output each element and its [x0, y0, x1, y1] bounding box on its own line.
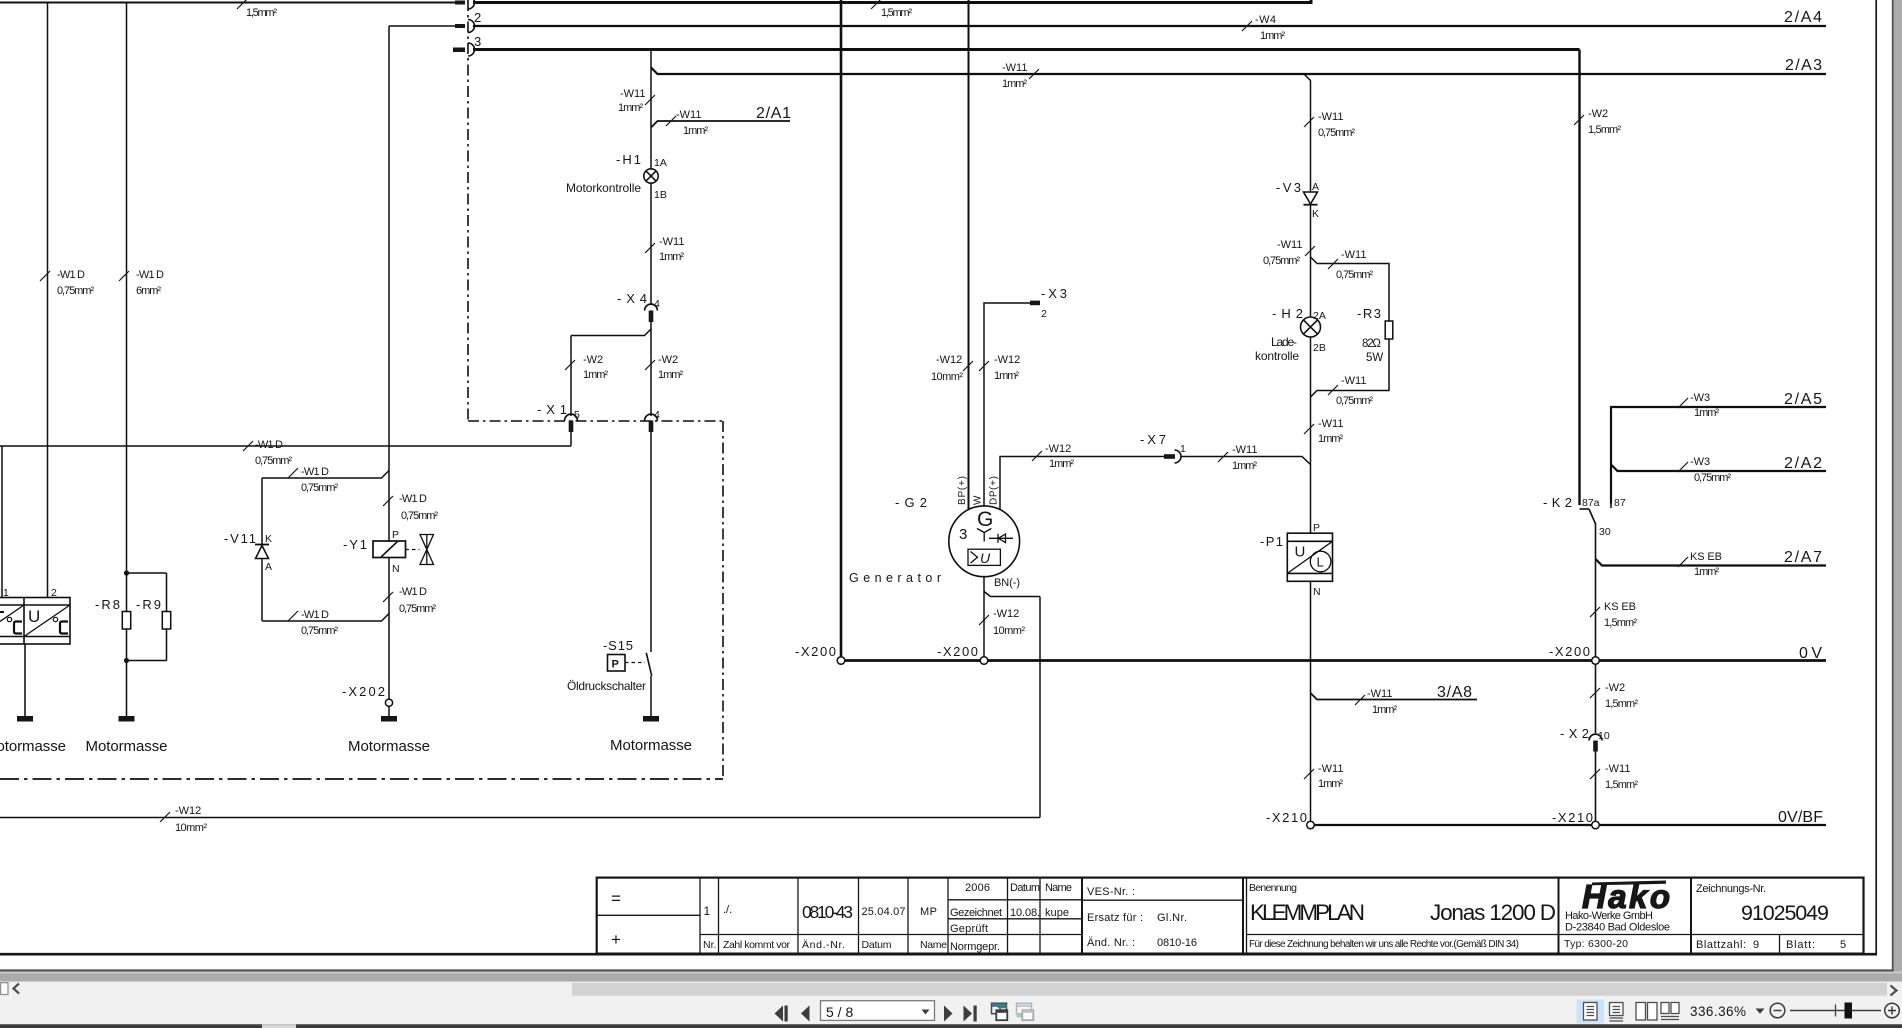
- svg-text:1mm²: 1mm²: [658, 369, 683, 381]
- svg-text:-W11: -W11: [1605, 763, 1630, 775]
- hscrollbar left arrow: [14, 984, 20, 994]
- svg-text:DP(+): DP(+): [989, 476, 1000, 505]
- svg-text:-W12: -W12: [936, 354, 962, 366]
- next view icon (disabled): [1017, 1003, 1034, 1020]
- wire V3 to parallel section: [1310, 205, 1312, 317]
- svg-text:10mm²: 10mm²: [931, 371, 963, 383]
- zoom in button: [1885, 1003, 1900, 1018]
- svg-text:Normgepr.: Normgepr.: [950, 941, 1000, 953]
- svg-text:0,75mm²: 0,75mm²: [1318, 127, 1355, 139]
- svg-text:W: W: [973, 495, 984, 505]
- svg-text:Name: Name: [920, 939, 947, 951]
- ground S15: [643, 716, 659, 722]
- svg-text:1mm²: 1mm²: [1232, 460, 1257, 472]
- svg-text:87a: 87a: [1582, 497, 1600, 509]
- svg-text:2006: 2006: [965, 882, 990, 894]
- svg-text:Ersatz für :: Ersatz für :: [1087, 912, 1143, 924]
- wire W1D horizontal y446: [0, 445, 571, 447]
- svg-text:Gezeichnet: Gezeichnet: [950, 907, 1002, 919]
- terminal X200 right: [1592, 657, 1600, 665]
- svg-text:L: L: [1317, 555, 1324, 570]
- zoom slider: [1790, 1005, 1881, 1017]
- wire bus 2/A5 with corner: [1611, 407, 1826, 504]
- svg-text:K: K: [1312, 208, 1319, 220]
- lamp H1: [644, 169, 658, 183]
- svg-text:U: U: [980, 550, 991, 566]
- svg-text:Motormasse: Motormasse: [86, 738, 168, 755]
- svg-text:1B: 1B: [654, 189, 667, 201]
- wire riser x47 to block terminal 2: [47, 3, 49, 598]
- svg-text:Jonas 1200 D: Jonas 1200 D: [1430, 900, 1556, 925]
- svg-text:-H1: -H1: [616, 152, 641, 167]
- svg-text:1mm²: 1mm²: [1260, 30, 1285, 42]
- svg-text:1mm²: 1mm²: [659, 251, 684, 263]
- svg-text:5: 5: [1840, 939, 1846, 951]
- svg-text:kupe: kupe: [1045, 907, 1069, 919]
- svg-text:2: 2: [474, 10, 481, 25]
- svg-text:K: K: [265, 533, 272, 545]
- wire thick riser x841 to X200: [840, 0, 843, 657]
- svg-text:Benennung: Benennung: [1249, 882, 1297, 894]
- wire parallel top rail to R3: [1311, 257, 1390, 321]
- svg-text:Für diese Zeichnung behalten w: Für diese Zeichnung behalten wir uns all…: [1249, 939, 1519, 950]
- svg-text:KLEMMPLAN: KLEMMPLAN: [1250, 900, 1365, 925]
- svg-text:2A: 2A: [1313, 310, 1326, 322]
- svg-text:-W2: -W2: [583, 354, 603, 366]
- svg-text:10: 10: [1598, 730, 1610, 742]
- view mode facing continuous: [1661, 1003, 1679, 1020]
- wire riser x389 from L2 to Y1: [388, 26, 390, 541]
- svg-text:-X200: -X200: [937, 644, 978, 659]
- svg-text:30: 30: [1599, 526, 1611, 538]
- svg-text:-W1 D: -W1 D: [136, 269, 164, 281]
- junction dot R8/R9 top: [124, 570, 129, 575]
- svg-text:1,5mm²: 1,5mm²: [881, 7, 912, 19]
- svg-text:0,75mm²: 0,75mm²: [301, 625, 338, 637]
- connector X3 pin bar: [1030, 301, 1040, 306]
- svg-text:2/A7: 2/A7: [1784, 549, 1822, 566]
- svg-text:87: 87: [1614, 497, 1626, 509]
- svg-text:-W11: -W11: [1341, 375, 1366, 387]
- svg-text:+: +: [611, 930, 621, 949]
- svg-text:0,75mm²: 0,75mm²: [57, 285, 94, 297]
- wire BN branch jog to x1040: [984, 592, 1040, 597]
- connector X4 socket arc: [645, 304, 658, 310]
- connector pin 1 (bar+socket): [455, 1, 465, 5]
- svg-text:0V: 0V: [1799, 645, 1822, 662]
- svg-text:-W2: -W2: [1605, 682, 1625, 694]
- svg-text:9: 9: [1753, 939, 1759, 951]
- svg-text:-W12: -W12: [175, 805, 201, 817]
- boundary dash-dot horizontal y421: [468, 420, 723, 422]
- svg-text:Motormasse: Motormasse: [0, 738, 66, 755]
- svg-text:A: A: [1312, 181, 1319, 193]
- wire riser x126 to R8: [126, 3, 128, 574]
- svg-text:1: 1: [1180, 443, 1186, 455]
- svg-text:1mm²: 1mm²: [1002, 78, 1027, 90]
- svg-text:1,5mm²: 1,5mm²: [1605, 779, 1638, 791]
- svg-text:5W: 5W: [1366, 352, 1383, 364]
- wire X1:5 tail to corner: [570, 432, 572, 446]
- svg-text:1: 1: [704, 904, 711, 918]
- wire Y1 N lead down to X202: [388, 558, 390, 700]
- svg-text:5: 5: [574, 409, 580, 421]
- svg-text:-V3: -V3: [1276, 180, 1301, 195]
- svg-text:-W11: -W11: [1277, 239, 1302, 251]
- svg-text:1mm²: 1mm²: [583, 369, 608, 381]
- svg-text:-W1 D: -W1 D: [255, 439, 283, 451]
- svg-text:Gl.Nr.: Gl.Nr.: [1157, 912, 1187, 924]
- junction dot R8/R9 bottom: [124, 658, 129, 663]
- svg-text:3: 3: [959, 526, 967, 543]
- wire V11 top branch y478: [262, 471, 389, 479]
- wire V3/H2 riser to P1: [1310, 465, 1312, 534]
- nav last page button: [964, 1006, 973, 1022]
- svg-text:-W2: -W2: [658, 354, 678, 366]
- svg-text:0,75mm²: 0,75mm²: [301, 482, 338, 494]
- svg-text:0810-16: 0810-16: [1157, 937, 1197, 949]
- svg-text:-W4: -W4: [1255, 14, 1276, 26]
- svg-text:BN(-): BN(-): [994, 577, 1020, 589]
- svg-text:-W1 D: -W1 D: [301, 609, 329, 621]
- svg-text:=: =: [611, 889, 621, 908]
- connector X1:4 pin bar: [649, 421, 654, 433]
- svg-text:1mm²: 1mm²: [618, 102, 643, 114]
- svg-text:1mm²: 1mm²: [1049, 458, 1074, 470]
- wire L2 left thin from Y1 riser corner: [389, 25, 456, 27]
- page number box: [821, 1001, 935, 1021]
- svg-text:-W3: -W3: [1690, 456, 1710, 468]
- svg-text:P: P: [612, 659, 619, 671]
- svg-text:Zahl kommt vor: Zahl kommt vor: [723, 939, 791, 951]
- wire bus 2/A3 with jog from H1 riser: [651, 68, 1826, 75]
- wire V3 riser: [1310, 81, 1312, 193]
- svg-text:Lade-: Lade-: [1271, 335, 1297, 349]
- svg-text:0,75mm²: 0,75mm²: [1336, 395, 1373, 407]
- sensor block U/C: [0, 598, 70, 645]
- view mode continuous: [1610, 1003, 1624, 1022]
- svg-text:-W2: -W2: [1588, 108, 1608, 120]
- svg-text:1mm²: 1mm²: [1372, 704, 1397, 716]
- wire P1 N lead down to X210: [1310, 582, 1312, 822]
- svg-text:5 / 8: 5 / 8: [826, 1004, 853, 1020]
- svg-text:MP: MP: [920, 906, 937, 918]
- wire block terminal 1 riser: [1, 446, 3, 598]
- svg-text:-R8: -R8: [95, 597, 120, 612]
- wire H2 lamp leads: [1310, 337, 1312, 465]
- wire DP(+) to X7: [1000, 457, 1165, 510]
- frame right line: [1875, 0, 1877, 954]
- svg-text:KS EB: KS EB: [1690, 551, 1722, 563]
- svg-text:3/A8: 3/A8: [1437, 684, 1472, 701]
- page right edge shadow: [1892, 0, 1894, 972]
- wire X4 down with branch jog: [650, 322, 652, 416]
- connector pin 2 (bar+socket): [455, 24, 465, 28]
- svg-text:P: P: [392, 529, 399, 541]
- wire parallel bottom rail from R3: [1311, 339, 1390, 397]
- svg-text:2/A3: 2/A3: [1785, 57, 1822, 74]
- svg-text:-S15: -S15: [603, 638, 633, 653]
- wire X3 drop W wire: [984, 303, 1031, 506]
- svg-text:Nr.: Nr.: [703, 939, 716, 951]
- svg-text:A: A: [265, 561, 272, 573]
- wire bus 0V/BF X210: [1315, 824, 1827, 826]
- svg-text:82Ω: 82Ω: [1362, 338, 1381, 350]
- connector X1:4 socket arc: [645, 414, 658, 420]
- generator G2: [949, 506, 1020, 577]
- wire bus 2/A4: [473, 25, 1826, 27]
- wire V11 cathode riser: [261, 559, 263, 622]
- SCHEMLABELS: [40, 0, 1731, 834]
- svg-text:U: U: [28, 607, 40, 626]
- resistor R9: [127, 573, 171, 661]
- svg-text:-W1 D: -W1 D: [399, 493, 427, 505]
- pressure switch S15: [608, 653, 652, 676]
- connector X2 socket arc: [1589, 734, 1602, 740]
- svg-text:U: U: [1295, 544, 1306, 561]
- boundary dash-dot vertical x723: [722, 421, 724, 779]
- svg-text:10.08.: 10.08.: [1010, 907, 1040, 919]
- svg-text:1,5mm²: 1,5mm²: [1588, 124, 1621, 136]
- wire H1 to X4: [650, 183, 652, 304]
- connector pin 3 (bar+socket): [453, 48, 465, 53]
- svg-text:Änd. Nr. :: Änd. Nr. :: [1087, 937, 1135, 949]
- hscrollbar thumb: [572, 983, 1887, 996]
- ground R8/R9: [119, 661, 135, 722]
- view mode single page (active): [1577, 1000, 1605, 1024]
- boundary dash-dot horizontal y779: [0, 778, 723, 780]
- svg-text:1mm²: 1mm²: [1318, 778, 1343, 790]
- svg-text:1mm²: 1mm²: [1694, 407, 1719, 419]
- svg-text:-X7: -X7: [1140, 432, 1166, 447]
- wire branch jog X4 to x571: [571, 329, 651, 336]
- svg-text:N: N: [392, 563, 400, 575]
- svg-text:2/A1: 2/A1: [756, 105, 791, 122]
- wire bus 2/A1 with jog: [651, 121, 790, 128]
- svg-text:-W11: -W11: [1002, 62, 1027, 74]
- svg-text:-X202: -X202: [342, 684, 385, 699]
- svg-text:D-23840 Bad Oldesloe: D-23840 Bad Oldesloe: [1565, 922, 1670, 934]
- terminal X200 generator: [980, 657, 988, 665]
- svg-text:Motormasse: Motormasse: [610, 737, 692, 754]
- ground X202: [381, 716, 397, 722]
- diode V11: [255, 545, 269, 559]
- svg-text:2: 2: [51, 587, 57, 599]
- nav next page button: [944, 1006, 953, 1022]
- lamp H2: [1301, 317, 1321, 337]
- svg-text:-W11: -W11: [1367, 688, 1392, 700]
- svg-text:6mm²: 6mm²: [136, 285, 161, 297]
- svg-text:Blatt:: Blatt:: [1786, 939, 1815, 951]
- svg-text:Datum: Datum: [862, 939, 892, 951]
- svg-text:Zeichnungs-Nr.: Zeichnungs-Nr.: [1696, 883, 1766, 895]
- svg-text:Motorkontrolle: Motorkontrolle: [566, 181, 641, 195]
- svg-text:10mm²: 10mm²: [993, 625, 1025, 637]
- wire X202 stem to ground: [388, 706, 390, 716]
- ground block (Motormasse left): [17, 644, 33, 722]
- svg-text:-W11: -W11: [1341, 249, 1366, 261]
- svg-text:-W1 D: -W1 D: [57, 269, 85, 281]
- svg-text:-W12: -W12: [994, 354, 1020, 366]
- wire X1:4 tail to S15: [650, 432, 652, 652]
- regulator P1: [1287, 533, 1332, 581]
- svg-text:1mm²: 1mm²: [994, 370, 1019, 382]
- svg-text:-W11: -W11: [659, 236, 684, 248]
- svg-text:0810-43: 0810-43: [802, 902, 853, 922]
- frame bottom line: [0, 953, 1877, 956]
- terminal X210 left: [1307, 821, 1315, 829]
- svg-text:3: 3: [474, 34, 481, 49]
- svg-text:0V/BF: 0V/BF: [1778, 809, 1823, 826]
- connector X1:5 socket arc: [565, 414, 578, 420]
- svg-text:25.04.07: 25.04.07: [862, 906, 906, 918]
- svg-text:kontrolle: kontrolle: [1255, 349, 1299, 363]
- hscrollbar splitter box: [1, 983, 8, 995]
- valve symbol at Y1: [406, 535, 434, 565]
- valve coil Y1: [373, 541, 406, 558]
- wire bus L3: [473, 48, 1580, 51]
- svg-text:BP(+): BP(+): [957, 476, 968, 505]
- nav first page button: [775, 1006, 784, 1022]
- svg-text:-X210: -X210: [1266, 810, 1307, 825]
- wire H1 riser top: [650, 50, 652, 170]
- canvas gray bottom strip: [0, 972, 1902, 982]
- svg-text:Änd.-Nr.: Änd.-Nr.: [802, 939, 845, 951]
- svg-text:-X210: -X210: [1552, 810, 1593, 825]
- svg-text:-W11: -W11: [1318, 763, 1343, 775]
- connector X4 pin bar: [649, 311, 654, 323]
- svg-text:1mm²: 1mm²: [1318, 433, 1343, 445]
- svg-text:-W12: -W12: [1045, 443, 1071, 455]
- svg-text:Blattzahl:: Blattzahl:: [1696, 939, 1746, 951]
- svg-text:2B: 2B: [1313, 342, 1326, 354]
- wire X200 to X2: [1595, 664, 1597, 733]
- svg-text:Datum: Datum: [1010, 882, 1040, 894]
- row lines: [597, 914, 700, 916]
- page box dropdown caret: [922, 1010, 930, 1015]
- taskbar light segment: [262, 1024, 296, 1028]
- wire V11 anode riser: [261, 478, 263, 544]
- page bottom edge shadow: [0, 969, 1894, 971]
- wire 2/A3 jog to V3 riser: [1304, 74, 1311, 81]
- wire bus L1 right thick to corner up: [473, 0, 1311, 3]
- svg-text:91025049: 91025049: [1741, 901, 1829, 925]
- svg-text:-W11: -W11: [1318, 111, 1343, 123]
- svg-text:4: 4: [654, 298, 660, 310]
- svg-text:-R3: -R3: [1357, 306, 1381, 321]
- hscrollbar right arrow: [1891, 986, 1897, 996]
- wire S15 to ground: [650, 676, 652, 716]
- svg-text:-W11: -W11: [676, 109, 701, 121]
- wire W2 riser from L3 to K2 87a: [1578, 50, 1580, 506]
- column lines: [699, 878, 701, 954]
- terminal X210 right: [1592, 821, 1600, 829]
- wire X7 to V3 riser with jog: [1181, 457, 1311, 465]
- svg-text:-W11: -W11: [1232, 444, 1257, 456]
- svg-text:-X3: -X3: [1041, 286, 1067, 301]
- svg-text:0,75mm²: 0,75mm²: [401, 510, 438, 522]
- connector X2 pin bar: [1593, 741, 1598, 752]
- resistor R8: [122, 573, 130, 661]
- wire V11 bottom branch y621: [262, 614, 389, 622]
- svg-text:1,5mm²: 1,5mm²: [1604, 617, 1637, 629]
- window bottom dark strip: [0, 1024, 1902, 1028]
- view mode facing: [1636, 1003, 1657, 1021]
- svg-text:-W3: -W3: [1690, 392, 1710, 404]
- svg-text:1mm²: 1mm²: [683, 125, 708, 137]
- statusbar background: [0, 996, 1902, 1024]
- svg-text:1A: 1A: [654, 157, 667, 169]
- svg-text:KS EB: KS EB: [1604, 601, 1636, 613]
- svg-text:-W12: -W12: [993, 608, 1019, 620]
- svg-text:-W1 D: -W1 D: [399, 586, 427, 598]
- relay contact K2: [1580, 504, 1612, 525]
- nav prev page button: [801, 1006, 810, 1022]
- svg-text:-W11: -W11: [620, 88, 645, 100]
- terminal X200 left: [837, 657, 845, 665]
- svg-text:4: 4: [654, 409, 660, 421]
- wire bus 0V: [845, 659, 1826, 662]
- svg-text:336.36%: 336.36%: [1690, 1004, 1746, 1019]
- svg-text:2/A5: 2/A5: [1784, 391, 1822, 408]
- svg-text:Motormasse: Motormasse: [348, 738, 430, 755]
- svg-text:0,75mm²: 0,75mm²: [1336, 269, 1373, 281]
- wire bus 2/A2 with jog: [1611, 465, 1826, 472]
- svg-text:1mm²: 1mm²: [1694, 566, 1719, 578]
- wire bus L1 top: [0, 2, 456, 4]
- connector X7 pin (bar+socket): [1164, 454, 1175, 459]
- svg-text:-W11: -W11: [1318, 418, 1343, 430]
- svg-text:-X200: -X200: [1549, 644, 1590, 659]
- Hako logo: [1582, 878, 1670, 915]
- svg-text:2: 2: [1041, 308, 1047, 320]
- svg-text:VES-Nr. :: VES-Nr. :: [1087, 886, 1135, 898]
- canvas gray right column: [1894, 0, 1902, 982]
- title block outer box: [597, 878, 1864, 954]
- svg-text:Öldruckschalter: Öldruckschalter: [567, 679, 646, 693]
- wire K2 30 lead: [1595, 524, 1597, 657]
- diode V3: [1304, 192, 1318, 205]
- boundary dash-dot vertical x468: [467, 0, 469, 421]
- label ticks (wire size marks): [40, 0, 1688, 822]
- svg-text:./.: ./.: [723, 904, 732, 916]
- hscrollbar track: [0, 982, 1902, 997]
- wire x571 riser to X1:5: [570, 336, 572, 417]
- svg-text:0,75mm²: 0,75mm²: [1263, 255, 1300, 267]
- svg-text:-W1 D: -W1 D: [301, 466, 329, 478]
- svg-text:-X200: -X200: [795, 644, 836, 659]
- svg-text:-Y1: -Y1: [343, 537, 367, 552]
- svg-text:-R9: -R9: [136, 597, 161, 612]
- wire 3/A8 branch: [1311, 693, 1478, 700]
- zoom out button: [1770, 1003, 1785, 1018]
- wire x1040 drop to W12 bus: [1039, 597, 1041, 818]
- svg-text:0,75mm²: 0,75mm²: [399, 603, 436, 615]
- wire bus 2/A7 with jog: [1596, 559, 1827, 566]
- svg-text:2/A2: 2/A2: [1784, 455, 1822, 472]
- resistor R3: [1385, 321, 1393, 339]
- connector X1:5 pin bar: [569, 421, 574, 433]
- previous view icon: [992, 1003, 1008, 1020]
- wire X2 to X210: [1595, 749, 1597, 821]
- svg-text:G: G: [977, 508, 993, 531]
- svg-text:1,5mm²: 1,5mm²: [246, 7, 277, 19]
- connector X202: [385, 699, 392, 706]
- svg-text:0,75mm²: 0,75mm²: [1694, 472, 1731, 484]
- zoom dropdown caret: [1756, 1009, 1765, 1014]
- svg-text:1,5mm²: 1,5mm²: [1605, 698, 1638, 710]
- wire W12 10mm2 bottom bus: [0, 817, 1040, 819]
